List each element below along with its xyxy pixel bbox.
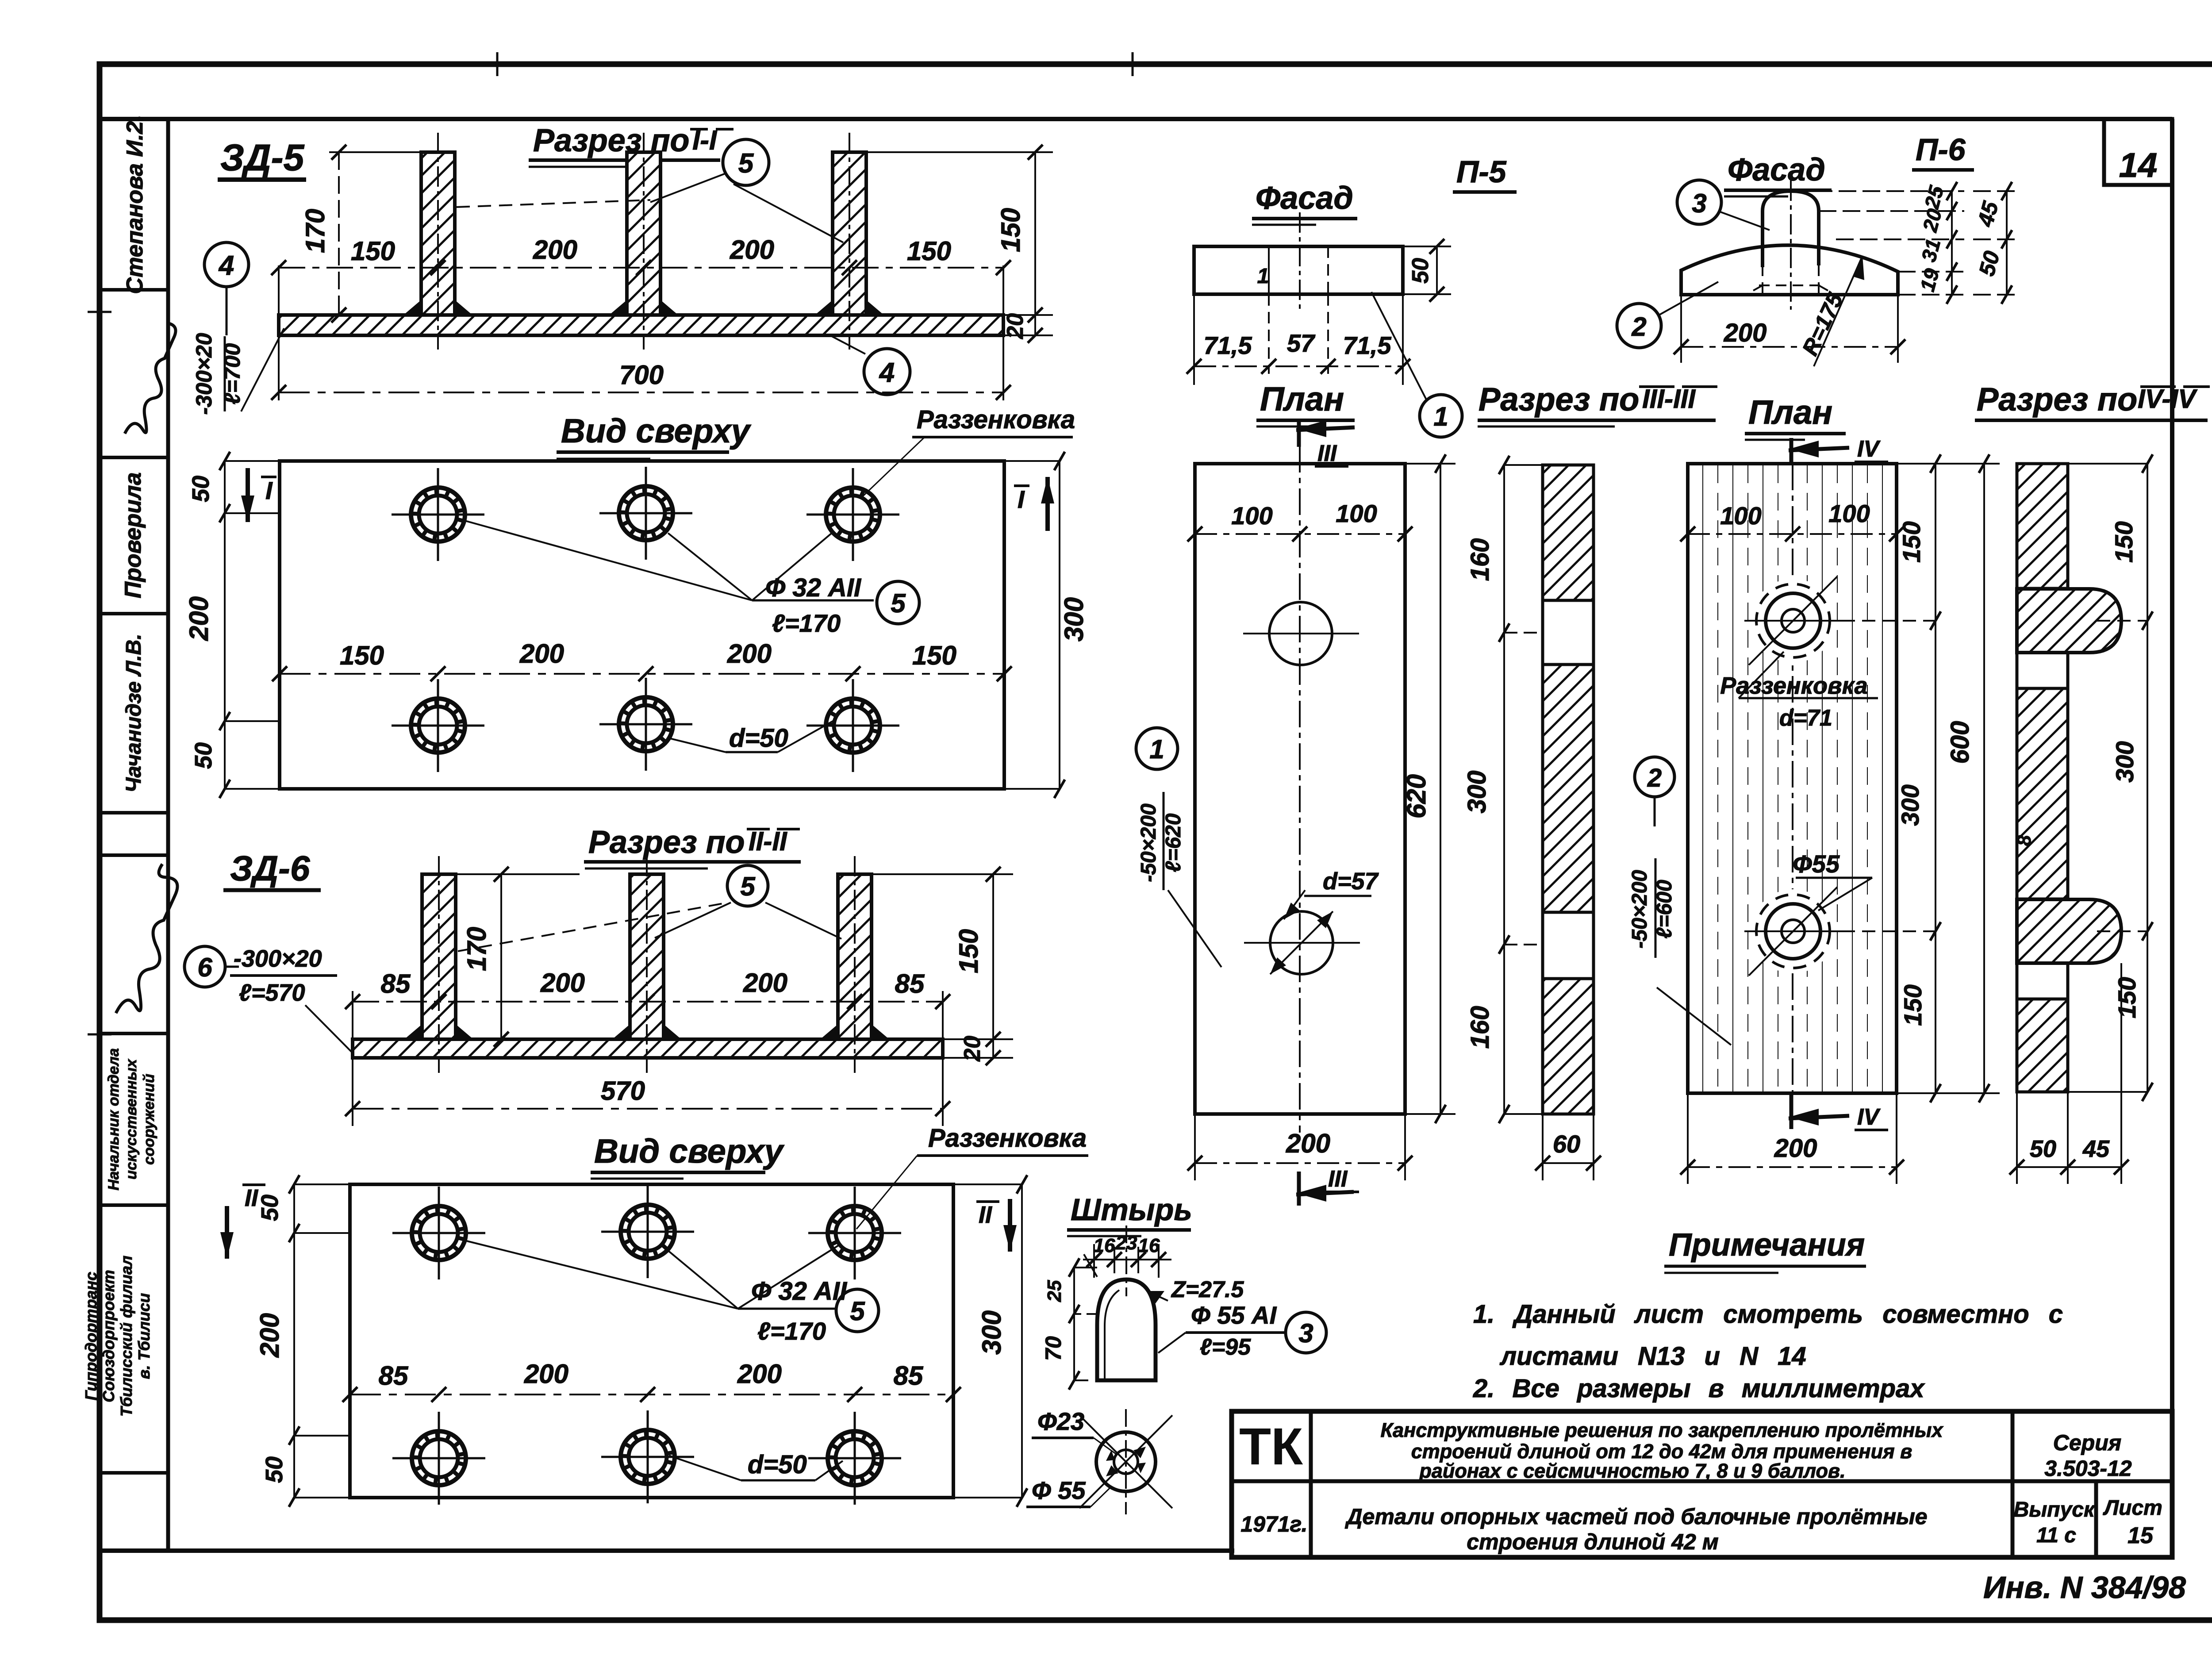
svg-text:сооружений: сооружений xyxy=(141,1074,157,1165)
svg-text:300: 300 xyxy=(977,1310,1006,1355)
svg-text:170: 170 xyxy=(300,209,330,253)
svg-text:150: 150 xyxy=(912,641,956,670)
svg-text:Начальник отдела: Начальник отдела xyxy=(105,1048,122,1191)
svg-text:23: 23 xyxy=(1115,1232,1137,1254)
svg-text:300: 300 xyxy=(2111,741,2139,782)
svg-text:150: 150 xyxy=(351,236,395,266)
svg-text:300: 300 xyxy=(1896,784,1924,826)
svg-text:ЗД-5: ЗД-5 xyxy=(220,137,305,178)
svg-text:5: 5 xyxy=(738,148,754,179)
svg-text:71,5: 71,5 xyxy=(1343,331,1392,359)
svg-text:районах с сейсмичностью 7, 8: районах с сейсмичностью 7, 8 и 9 баллов. xyxy=(1419,1460,1845,1482)
svg-text:60: 60 xyxy=(1553,1130,1580,1158)
svg-text:Z=27.5: Z=27.5 xyxy=(1171,1277,1244,1302)
svg-text:IV-IV: IV-IV xyxy=(2138,384,2198,414)
svg-text:57: 57 xyxy=(1287,329,1316,357)
svg-text:Фасад: Фасад xyxy=(1256,181,1353,216)
svg-text:d=71: d=71 xyxy=(1779,705,1832,731)
svg-text:300: 300 xyxy=(1059,597,1089,642)
svg-text:20: 20 xyxy=(1002,313,1028,339)
svg-text:Ф 32 АII: Ф 32 АII xyxy=(751,1277,848,1306)
svg-text:2. Все размеры в миллиметрах: 2. Все размеры в миллиметрах xyxy=(1473,1374,1925,1403)
svg-text:570: 570 xyxy=(601,1076,645,1106)
svg-text:20: 20 xyxy=(960,1036,985,1062)
svg-text:100: 100 xyxy=(1231,502,1272,530)
svg-text:85: 85 xyxy=(379,1361,409,1391)
svg-text:3.503-12: 3.503-12 xyxy=(2044,1456,2132,1481)
svg-text:Примечания: Примечания xyxy=(1669,1227,1865,1263)
svg-text:100: 100 xyxy=(1720,502,1761,530)
svg-text:ℓ=170: ℓ=170 xyxy=(772,609,841,637)
svg-text:III: III xyxy=(1328,1166,1348,1192)
svg-text:200: 200 xyxy=(533,235,577,265)
svg-text:15: 15 xyxy=(2128,1523,2154,1548)
svg-text:П-5: П-5 xyxy=(1456,154,1507,189)
svg-text:200: 200 xyxy=(524,1359,568,1389)
svg-text:Проверила: Проверила xyxy=(120,473,146,599)
svg-text:Фасад: Фасад xyxy=(1728,152,1825,188)
svg-text:8: 8 xyxy=(2013,835,2035,846)
svg-text:3: 3 xyxy=(1692,188,1706,218)
svg-text:50: 50 xyxy=(261,1456,288,1483)
svg-text:d=57: d=57 xyxy=(1323,868,1379,895)
svg-text:ℓ=570: ℓ=570 xyxy=(239,980,305,1006)
svg-text:150: 150 xyxy=(1899,984,1927,1026)
svg-text:Раззенковка: Раззенковка xyxy=(928,1124,1087,1153)
svg-text:2: 2 xyxy=(1631,312,1646,342)
svg-text:4: 4 xyxy=(218,250,234,281)
svg-text:-300×20: -300×20 xyxy=(192,333,216,415)
svg-text:300: 300 xyxy=(1463,771,1491,814)
svg-text:Гипродортранс: Гипродортранс xyxy=(82,1272,100,1401)
svg-text:ℓ=95: ℓ=95 xyxy=(1200,1334,1251,1360)
svg-text:160: 160 xyxy=(1466,538,1494,581)
svg-text:Ф 32 АII: Ф 32 АII xyxy=(765,573,862,602)
svg-text:150: 150 xyxy=(2110,521,2138,562)
svg-text:Разрез по: Разрез по xyxy=(588,825,745,860)
svg-text:100: 100 xyxy=(1828,499,1870,527)
svg-text:150: 150 xyxy=(1897,521,1925,562)
svg-text:План: План xyxy=(1748,394,1832,431)
svg-text:200: 200 xyxy=(743,968,787,998)
svg-text:16: 16 xyxy=(1138,1235,1160,1256)
svg-text:Ф55: Ф55 xyxy=(1793,850,1840,878)
svg-text:1. Данный лист смотреть совмес: 1. Данный лист смотреть совместно с xyxy=(1473,1300,2063,1329)
svg-text:искусственных: искусственных xyxy=(123,1058,140,1179)
svg-text:50: 50 xyxy=(257,1195,283,1221)
svg-text:Штырь: Штырь xyxy=(1071,1192,1192,1227)
svg-text:листами N13 и N 14: листами N13 и N 14 xyxy=(1499,1342,1806,1371)
svg-text:Тбилисский филиал: Тбилисский филиал xyxy=(117,1256,135,1417)
svg-text:III-III: III-III xyxy=(1642,384,1696,414)
svg-text:IV: IV xyxy=(1857,1104,1881,1130)
svg-text:11 с: 11 с xyxy=(2036,1524,2076,1547)
svg-text:85: 85 xyxy=(894,1361,924,1391)
svg-text:50: 50 xyxy=(190,742,217,769)
svg-text:3: 3 xyxy=(1298,1318,1313,1348)
svg-text:II: II xyxy=(245,1185,258,1211)
svg-text:Вид сверху: Вид сверху xyxy=(561,412,752,450)
svg-text:Лист: Лист xyxy=(2103,1496,2162,1520)
svg-text:Чачанидзе Л.В.: Чачанидзе Л.В. xyxy=(122,634,146,792)
svg-text:-50×200: -50×200 xyxy=(1628,870,1651,949)
svg-text:200: 200 xyxy=(727,639,772,668)
svg-text:I: I xyxy=(265,476,273,504)
svg-text:200: 200 xyxy=(255,1313,284,1358)
svg-text:Вид сверху: Вид сверху xyxy=(594,1133,785,1170)
svg-text:Ф 55: Ф 55 xyxy=(1032,1476,1086,1504)
svg-text:4: 4 xyxy=(879,357,895,388)
svg-text:6: 6 xyxy=(197,953,212,982)
svg-text:150: 150 xyxy=(954,929,983,973)
svg-text:14: 14 xyxy=(2119,146,2158,184)
svg-text:5: 5 xyxy=(850,1296,865,1326)
svg-text:100: 100 xyxy=(1336,499,1377,527)
svg-text:строения длиной 42 м: строения длиной 42 м xyxy=(1467,1529,1718,1554)
svg-text:ℓ=620: ℓ=620 xyxy=(1162,813,1185,872)
svg-text:1: 1 xyxy=(1149,734,1164,764)
svg-text:ℓ=170: ℓ=170 xyxy=(757,1317,826,1345)
svg-text:Раззенковка: Раззенковка xyxy=(1720,672,1867,699)
svg-text:25: 25 xyxy=(1044,1280,1065,1302)
svg-text:200: 200 xyxy=(1774,1134,1817,1163)
svg-text:50: 50 xyxy=(2030,1136,2056,1162)
svg-text:Ф 55 АI: Ф 55 АI xyxy=(1191,1301,1277,1329)
svg-text:200: 200 xyxy=(1724,319,1767,347)
svg-text:Детали опорных частей под бало: Детали опорных частей под балочные пролё… xyxy=(1344,1504,1927,1529)
svg-text:II-II: II-II xyxy=(749,826,787,856)
svg-text:I: I xyxy=(1018,485,1025,513)
svg-text:Разрез по: Разрез по xyxy=(1479,381,1639,418)
svg-text:Раззенковка: Раззенковка xyxy=(917,405,1075,434)
svg-text:II: II xyxy=(979,1202,992,1228)
svg-text:50: 50 xyxy=(1408,258,1433,284)
svg-text:150: 150 xyxy=(2113,977,2141,1018)
svg-text:ТК: ТК xyxy=(1239,1418,1303,1476)
svg-text:в. Тбилиси: в. Тбилиси xyxy=(135,1293,153,1379)
svg-text:71,5: 71,5 xyxy=(1204,331,1252,359)
svg-text:-300×20: -300×20 xyxy=(234,945,322,972)
svg-text:170: 170 xyxy=(462,927,492,971)
svg-text:600: 600 xyxy=(1946,721,1974,764)
svg-text:Канструктивные решения по закр: Канструктивные решения по закреплению пр… xyxy=(1380,1419,1943,1441)
svg-text:Союздорпроект: Союздорпроект xyxy=(100,1270,118,1402)
svg-text:5: 5 xyxy=(891,588,906,618)
svg-text:700: 700 xyxy=(619,360,664,390)
svg-text:Ф23: Ф23 xyxy=(1037,1407,1084,1435)
svg-text:70: 70 xyxy=(1041,1336,1066,1361)
svg-text:Выпуск: Выпуск xyxy=(2014,1498,2096,1521)
svg-text:50: 50 xyxy=(188,476,214,502)
svg-text:620: 620 xyxy=(1402,774,1431,818)
svg-text:200: 200 xyxy=(730,235,774,265)
svg-text:150: 150 xyxy=(907,236,951,266)
svg-text:200: 200 xyxy=(1286,1129,1330,1158)
svg-text:Инв. N 384/98: Инв. N 384/98 xyxy=(1983,1570,2186,1605)
svg-text:d=50: d=50 xyxy=(748,1450,807,1479)
svg-text:160: 160 xyxy=(1466,1006,1494,1049)
svg-text:150: 150 xyxy=(996,208,1025,252)
svg-text:45: 45 xyxy=(2082,1136,2110,1162)
svg-text:16: 16 xyxy=(1094,1235,1115,1256)
svg-text:П-6: П-6 xyxy=(1916,132,1966,167)
svg-text:ЗД-6: ЗД-6 xyxy=(230,849,310,888)
svg-text:IV: IV xyxy=(1857,436,1881,462)
svg-text:-50×200: -50×200 xyxy=(1137,803,1160,882)
svg-text:ℓ=700: ℓ=700 xyxy=(220,343,245,405)
svg-text:5: 5 xyxy=(740,872,756,901)
svg-text:Разрез по: Разрез по xyxy=(1977,381,2137,418)
svg-text:Разрез по: Разрез по xyxy=(533,123,690,158)
svg-text:200: 200 xyxy=(540,968,585,998)
svg-text:d=50: d=50 xyxy=(729,724,788,753)
svg-text:1971г.: 1971г. xyxy=(1240,1512,1307,1537)
svg-text:200: 200 xyxy=(737,1359,782,1389)
svg-text:85: 85 xyxy=(895,969,925,999)
svg-text:200: 200 xyxy=(519,639,564,668)
svg-text:Серия: Серия xyxy=(2053,1430,2121,1455)
svg-text:2: 2 xyxy=(1647,764,1662,792)
svg-text:План: План xyxy=(1260,380,1344,418)
svg-text:1: 1 xyxy=(1433,402,1448,431)
svg-text:85: 85 xyxy=(381,969,411,999)
svg-text:1: 1 xyxy=(1257,265,1269,288)
svg-text:200: 200 xyxy=(184,596,214,641)
svg-text:150: 150 xyxy=(340,641,384,670)
svg-text:Степанова И.2.: Степанова И.2. xyxy=(122,115,148,294)
